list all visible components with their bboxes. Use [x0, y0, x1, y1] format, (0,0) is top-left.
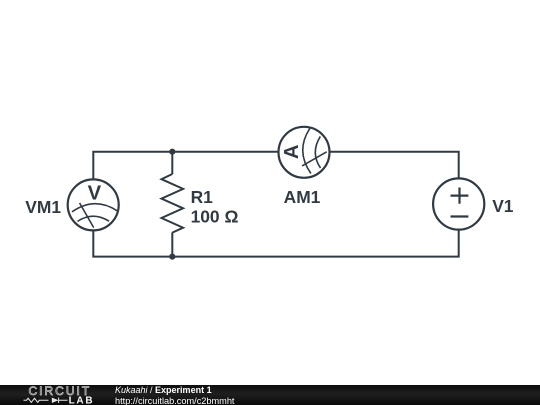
svg-text:100 Ω: 100 Ω — [191, 206, 239, 226]
svg-text:VM1: VM1 — [25, 197, 61, 217]
wire top net: VM1 top to V1 top — [93, 152, 458, 180]
svg-text:R1: R1 — [191, 187, 214, 207]
wire bottom net: VM1 bottom to V1 bottom — [93, 230, 458, 257]
logo resistor squiggle and diode — [24, 398, 68, 403]
wire R1 top lead — [171, 152, 173, 175]
caption line 1 — [115, 386, 212, 395]
voltage source V1 — [433, 178, 484, 229]
voltmeter VM1 — [68, 179, 119, 230]
svg-text:V: V — [88, 182, 102, 204]
svg-text:A: A — [281, 144, 303, 159]
footer bar — [0, 385, 540, 405]
svg-text:LAB: LAB — [69, 396, 95, 405]
svg-text:AM1: AM1 — [284, 187, 321, 207]
node junction bottom (R1/bottom wire) — [169, 254, 175, 260]
svg-text:V1: V1 — [492, 196, 514, 216]
wire R1 bottom lead — [171, 232, 173, 256]
resistor R1 — [162, 174, 184, 233]
caption line 2 — [115, 397, 234, 405]
ammeter AM1 — [279, 127, 330, 178]
node junction top (R1/top wire) — [169, 149, 175, 155]
